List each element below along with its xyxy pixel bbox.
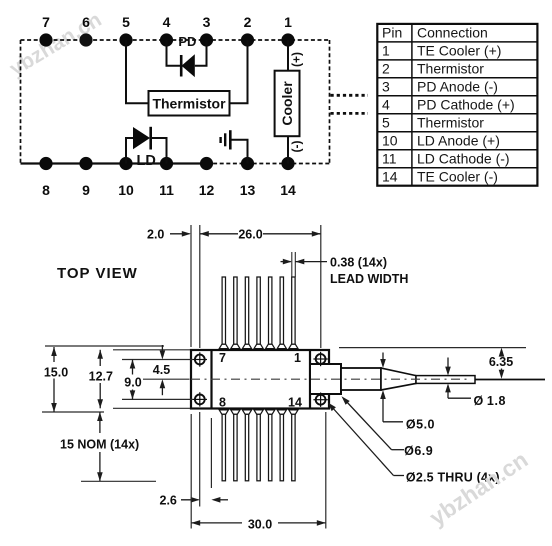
dimension 4.5 (hole line to centerline) [153,345,170,395]
svg-text:14: 14 [288,396,302,410]
svg-text:Cooler: Cooler [279,81,295,126]
snout tube [341,368,381,390]
label (-) at cooler bottom [290,141,304,153]
snout block [310,364,341,394]
svg-text:14: 14 [280,182,296,198]
svg-text:PD Anode (-): PD Anode (-) [417,79,498,95]
svg-text:3: 3 [203,14,211,30]
svg-text:4: 4 [163,14,171,30]
svg-text:6: 6 [82,14,90,30]
dimension 26.0 (hole center to hole center) [200,225,321,348]
svg-text:(-): (-) [290,141,304,153]
centerline (dash-dot) [143,378,470,380]
svg-text:5: 5 [122,14,130,30]
wire pin1 to cooler [287,40,289,71]
svg-text:2: 2 [244,14,252,30]
svg-text:15.0: 15.0 [44,365,68,379]
dashed connector line upper (schematic to table) [331,94,369,97]
svg-text:LEAD WIDTH: LEAD WIDTH [330,272,408,286]
svg-text:Thermistor: Thermistor [417,115,484,131]
top leads (7x) [219,277,298,349]
pin 14 [280,157,296,198]
svg-text:1: 1 [382,43,390,59]
svg-text:Ø 1.8: Ø 1.8 [474,394,507,408]
photodiode PD (between pins 4 and 3) [178,34,196,77]
wire cooler to pin14 [287,136,289,163]
dimension 30.0 (overall width) [191,412,326,531]
svg-text:8: 8 [219,396,226,410]
svg-text:10: 10 [118,182,134,198]
wire LD to pin11 [151,138,167,164]
svg-text:9.0: 9.0 [124,376,141,390]
watermark ybzhan.cn top-left [6,8,106,81]
dimension Ø6.9 (snout block) [342,396,434,458]
taper cone [381,368,416,390]
svg-text:7: 7 [219,351,226,365]
wire pin10 to LD [126,138,133,164]
laser diode LD (between pins 10 and 11) [133,127,156,169]
dimension 15 NOM (14x) lead length [60,412,156,481]
dimension 6.35 (top edge to fiber centerline) [339,348,526,379]
pin 7 label (top view) [219,351,226,365]
label (+) at cooler top [290,52,304,67]
wire PD to pin3 [195,40,207,66]
pin 3 [200,14,213,47]
svg-text:Ø5.0: Ø5.0 [406,418,435,432]
mounting hole top-left [193,352,207,366]
pin 2 [241,14,254,47]
pin 5 [119,14,132,47]
package body (top view) [191,350,329,409]
pin 10 [118,157,134,198]
mounting hole bottom-left [193,392,207,406]
dimension 9.0 (hole centers vertical) [122,360,193,400]
pin 12 [199,157,215,198]
fiber [475,379,545,381]
svg-text:7: 7 [42,14,50,30]
dimension Ø2.5 THRU (4x) mounting holes [328,403,500,485]
dimension Ø5.0 (snout tube) [380,353,435,432]
pin 11 [159,157,174,198]
svg-text:Thermistor: Thermistor [417,61,484,77]
dimension Ø1.8 (ferrule) [445,358,506,409]
svg-text:PD Cathode (+): PD Cathode (+) [417,97,515,113]
svg-text:12: 12 [199,182,215,198]
watermark ybzhan.cn bottom-right [425,446,533,530]
fiber ferrule [416,376,475,384]
pin 8 [39,157,52,198]
svg-text:5: 5 [382,115,390,131]
pin 7 [39,14,52,47]
svg-text:Pin: Pin [382,25,402,41]
svg-text:2.6: 2.6 [160,493,177,507]
svg-text:Thermistor: Thermistor [152,96,226,112]
svg-text:LD: LD [137,153,156,169]
pin connection table [377,24,537,186]
pin 6 [79,14,92,47]
svg-text:11: 11 [159,182,174,198]
svg-text:3: 3 [382,79,390,95]
ground (rotated, near pin 13) [221,130,231,149]
pin 13 [240,157,256,198]
svg-text:2.0: 2.0 [147,228,164,242]
svg-text:15 NOM (14x): 15 NOM (14x) [60,437,139,451]
svg-text:14: 14 [382,169,398,185]
svg-text:8: 8 [42,182,50,198]
svg-text:1: 1 [284,14,292,30]
TE cooler (box, rotated text) [275,71,300,137]
svg-text:30.0: 30.0 [248,517,272,531]
mounting hole top-right [313,352,327,366]
svg-text:Ø6.9: Ø6.9 [404,444,433,458]
pin 8 label (top view) [219,396,226,410]
mounting hole bottom-right [313,393,327,407]
svg-text:10: 10 [382,133,398,149]
TOP VIEW title [57,265,138,282]
svg-text:26.0: 26.0 [238,228,262,242]
svg-text:13: 13 [240,182,256,198]
dimension 0.38 lead width callout [281,252,409,286]
svg-text:12.7: 12.7 [89,370,113,384]
dimension 15.0 (package height) [42,346,164,412]
wire pin13 to ground [230,140,247,164]
svg-text:1: 1 [294,351,301,365]
wire pin4 to PD [167,40,182,66]
wire pin5 to thermistor [126,40,149,103]
svg-text:TE Cooler (+): TE Cooler (+) [417,43,501,59]
svg-text:4: 4 [382,97,390,113]
bottom leads (7x) [219,410,298,481]
svg-text:TE Cooler (-): TE Cooler (-) [417,169,498,185]
svg-text:4.5: 4.5 [153,363,170,377]
dimension 12.7 [89,350,190,409]
svg-text:11: 11 [382,151,397,167]
dimension 2.6 (hole center to body edge) [160,412,229,507]
pin 4 [160,14,173,47]
wire thermistor to pin2 [230,40,248,103]
pin 1 [281,14,294,47]
pin 1 label (top view) [294,351,301,365]
svg-text:PD: PD [178,34,196,49]
svg-text:2: 2 [382,61,390,77]
pin 9 [79,157,92,198]
svg-text:6.35: 6.35 [489,355,513,369]
svg-text:LD Cathode (-): LD Cathode (-) [417,151,510,167]
svg-text:TOP VIEW: TOP VIEW [57,265,138,282]
thermistor R (box) [149,91,230,116]
svg-text:Connection: Connection [417,25,488,41]
svg-text:(+): (+) [290,52,304,67]
package outline (schematic, dashed) [21,40,330,164]
dimension 2.0 (flange edge to hole center) [147,225,200,348]
pin 14 label (top view) [288,396,302,410]
svg-text:9: 9 [82,182,90,198]
dashed connector line lower (schematic to table) [331,112,369,115]
svg-text:LD Anode (+): LD Anode (+) [417,133,500,149]
svg-text:0.38 (14x): 0.38 (14x) [330,256,387,270]
